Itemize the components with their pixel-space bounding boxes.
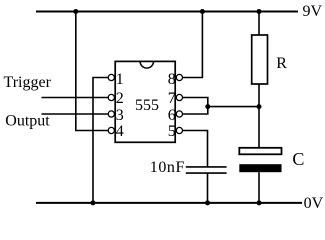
capacitor C bottom plate (239, 164, 281, 172)
pin 1 bubble (108, 74, 114, 80)
node junction pins 6-7 (205, 104, 210, 109)
op-amp U1 555 IC body (115, 61, 175, 142)
svg-text:0V: 0V (304, 195, 324, 211)
wire resistor to capacitor C (258, 84, 260, 148)
svg-text:555: 555 (135, 97, 159, 114)
pin 2 bubble (108, 94, 114, 100)
wire +9V top rail (36, 11, 298, 13)
svg-text:Trigger: Trigger (4, 74, 52, 91)
svg-text:2: 2 (116, 90, 124, 107)
wire pin 8 to top rail (182, 12, 202, 78)
svg-text:8: 8 (168, 71, 176, 88)
wire pins 6-7 to R-C node (208, 106, 259, 108)
svg-text:C: C (292, 149, 304, 169)
pin 5 bubble (176, 127, 182, 133)
pin 4 bubble (108, 127, 114, 133)
wire pin 7 to pin 6 link (182, 98, 207, 115)
svg-text:6: 6 (168, 107, 176, 124)
resistor R (252, 35, 268, 84)
node junction top rail / pin 8 (200, 9, 205, 14)
wire 0V bottom rail (36, 202, 302, 204)
555 IC notch (140, 61, 153, 68)
svg-text:1: 1 (116, 71, 124, 88)
wire Trigger input to pin 2 (42, 97, 108, 99)
capacitor 10nF top plate (186, 166, 227, 168)
node junction top rail / reset (73, 9, 78, 14)
wire pin 1 to ground (93, 78, 108, 203)
pin 6 bubble (176, 111, 182, 117)
wire top rail to resistor (258, 12, 260, 36)
node junction bottom rail / pin 1 ground (91, 200, 96, 205)
svg-text:4: 4 (116, 123, 124, 140)
node junction bottom rail / capacitor C (257, 200, 262, 205)
svg-text:5: 5 (168, 123, 176, 140)
pin 7 bubble (176, 94, 182, 100)
wire capacitor C to bottom rail (258, 172, 260, 203)
svg-text:7: 7 (168, 90, 176, 107)
wire pin 5 to 10nF capacitor (182, 131, 207, 167)
svg-text:Output: Output (5, 112, 50, 129)
node junction top rail / resistor (257, 9, 262, 14)
pin 8 bubble (176, 74, 182, 80)
svg-text:3: 3 (116, 107, 124, 124)
wire reset vertical from top rail to pin 4 (76, 12, 108, 131)
wire Output from pin 3 (42, 113, 108, 115)
svg-text:9V: 9V (303, 3, 323, 20)
capacitor C top plate (239, 148, 281, 155)
node junction bottom rail / 10nF (205, 200, 210, 205)
pin 3 bubble (108, 111, 114, 117)
wire 10nF capacitor to bottom rail (207, 173, 209, 203)
svg-text:10nF: 10nF (150, 159, 185, 176)
svg-text:R: R (276, 55, 287, 72)
node junction R-C / pins 6-7 (257, 104, 262, 109)
capacitor 10nF bottom plate (186, 172, 227, 174)
